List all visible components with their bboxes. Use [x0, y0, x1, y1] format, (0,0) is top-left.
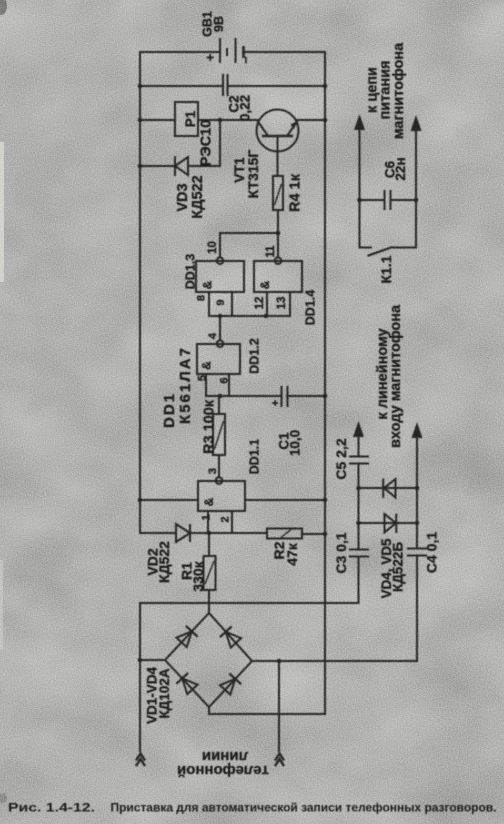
resistor R1	[204, 556, 216, 590]
wire R2 to right rail	[302, 533, 325, 535]
node VD5 left	[356, 486, 361, 491]
transistor VT1	[257, 110, 299, 177]
wire R3 top	[218, 396, 220, 414]
node C1 rail	[323, 394, 328, 399]
arrow to line input left	[353, 421, 364, 437]
capacitor C1 polar	[282, 386, 288, 407]
wire bridge left corner link	[140, 659, 165, 661]
capacitor C2	[223, 74, 228, 96]
diode VD4	[385, 514, 397, 534]
wire top battery rail left	[140, 51, 219, 53]
node VD4 left	[356, 521, 361, 526]
node pin12 bus	[264, 314, 269, 319]
wire VD5 row	[359, 487, 418, 489]
wire pins 8,9 of DD1.3	[208, 292, 210, 316]
scan artifact: light strip left edge	[0, 142, 4, 282]
node VD5 right	[415, 486, 420, 491]
bridge diode lower-right	[219, 673, 241, 695]
wire DD1.1 row	[140, 499, 198, 501]
wire VD3 row	[140, 165, 175, 167]
gate DD1.3	[196, 257, 244, 292]
phone terminal chevrons right	[275, 754, 284, 761]
wire pins 1,2 of DD1.1	[207, 511, 209, 533]
arrows	[353, 114, 423, 438]
wire gate input bus	[209, 315, 290, 317]
wire bridge bottom path	[209, 603, 325, 714]
wire bridge right output	[252, 660, 417, 662]
wire left rail lower	[139, 603, 141, 751]
capacitor C6	[385, 190, 391, 210]
scan artifact: dark smudge top-left corner	[0, 0, 7, 15]
node VT1 collector	[218, 118, 223, 123]
node bridge left	[138, 658, 143, 663]
capacitor C5	[349, 457, 369, 464]
wire R4 to gates	[277, 210, 279, 233]
node VD3 left rail	[138, 164, 143, 169]
wire K1.1 right riser	[415, 129, 417, 248]
wire R1 top	[208, 533, 210, 556]
battery GB1	[220, 38, 244, 63]
wire C1 row	[206, 395, 281, 397]
switch K1.1	[360, 247, 372, 249]
node VD4 right	[415, 521, 420, 526]
bridge diode lower-left	[176, 673, 198, 695]
wire pin10 stub	[219, 233, 221, 258]
diode bridge VD1-VD4	[165, 613, 252, 707]
wire pins 5,6 of DD1.2	[205, 374, 207, 396]
wire VD4 row	[359, 522, 418, 524]
arrow to recorder power right	[411, 115, 422, 131]
node pin4 branch	[218, 314, 223, 319]
gate DD1.4	[254, 257, 302, 292]
resistor R2	[267, 529, 302, 539]
node R1 top	[207, 531, 212, 536]
wire P1-VD3 join vertical	[219, 120, 221, 166]
wire VD2 row	[140, 532, 176, 534]
diode VD2	[176, 524, 190, 542]
node R4 gate outputs	[276, 231, 281, 236]
wire C6 right	[391, 199, 416, 201]
wire left rail upper	[139, 52, 141, 533]
resistor R3	[213, 414, 225, 455]
wire right rail	[324, 52, 326, 603]
relay P1	[175, 102, 198, 136]
phone terminal chevrons left	[136, 754, 145, 761]
node VT1 emitter rail	[323, 118, 328, 123]
capacitor C4	[407, 549, 427, 556]
node DD1.1 left rail	[138, 498, 143, 503]
gate DD1.2	[197, 340, 240, 374]
wire pin4 stub	[219, 316, 221, 340]
wire pins 12,13 of DD1.4	[266, 292, 268, 316]
node phone terminal b	[277, 659, 282, 664]
caption	[8, 801, 497, 815]
node DD1.1 right rail	[323, 498, 328, 503]
node C6 left	[357, 198, 362, 203]
wire R3 bottom to pin3	[218, 455, 220, 477]
node R2 rail	[323, 532, 328, 537]
wire C4 riser	[416, 556, 418, 661]
arrow to recorder power left	[354, 114, 365, 130]
wire C3 C5 riser	[358, 557, 360, 603]
wire C2 row	[140, 85, 222, 87]
wire phone terminal b	[278, 661, 280, 751]
wire K1.1 left riser	[359, 128, 361, 248]
wire R1 bottom to bridge	[208, 590, 210, 613]
wire top battery rail right	[244, 51, 325, 53]
diode VD5	[383, 479, 395, 499]
wire P1 row	[140, 119, 175, 121]
capacitor C3	[349, 550, 369, 557]
node C2 right	[323, 84, 328, 89]
wire C6 left	[360, 199, 385, 201]
resistor R4	[273, 176, 283, 210]
gate DD1.1	[198, 477, 245, 511]
bridge diode upper-right	[220, 626, 242, 648]
node R3 top	[218, 394, 223, 399]
diode VD3	[175, 156, 188, 176]
wire pin11 stub	[277, 233, 279, 258]
bridge diode upper-left	[176, 626, 198, 648]
node C2 left	[138, 84, 143, 89]
node P1 left rail	[138, 118, 143, 123]
arrow to line input right	[412, 422, 423, 438]
node C6 right	[414, 198, 419, 203]
wire phone line a horizontal	[140, 602, 358, 604]
